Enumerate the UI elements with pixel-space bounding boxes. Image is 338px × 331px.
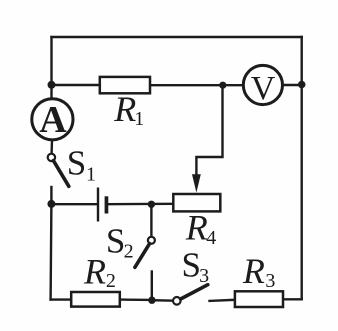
svg-text:S: S [106, 221, 125, 260]
node junction voltmeter-right [298, 81, 306, 89]
rheostat R4 [173, 194, 220, 249]
wire R1 to voltmeter [150, 84, 244, 86]
wire bottom left to R2 [51, 298, 72, 300]
svg-text:S: S [67, 143, 86, 182]
wire right vertical [301, 37, 303, 299]
svg-text:V: V [251, 70, 276, 107]
voltmeter V [243, 65, 282, 107]
resistor R2 [71, 251, 120, 306]
wire S1 lower contact stub [50, 187, 52, 204]
svg-text:S: S [182, 246, 201, 285]
svg-text:4: 4 [206, 227, 216, 249]
rheostat wiper arrow [192, 174, 201, 192]
svg-text:3: 3 [199, 265, 209, 287]
ammeter A [32, 99, 73, 141]
node junction battery-right [148, 201, 155, 208]
svg-text:2: 2 [124, 241, 134, 263]
node junction R1-right / wiper tap [219, 82, 226, 89]
wire S3 to R3 [210, 300, 235, 301]
wire R4 wiper feed [196, 85, 222, 176]
wire node A to R1 [52, 84, 100, 86]
node junction bottom [148, 297, 155, 304]
svg-text:R: R [83, 251, 106, 291]
switch S1 [48, 143, 96, 186]
svg-text:2: 2 [106, 270, 116, 292]
wire battery right to R4 [108, 203, 173, 206]
node junction top-left [48, 81, 56, 89]
svg-text:R: R [185, 208, 208, 248]
wire R2 to node B [120, 298, 152, 301]
svg-text:R: R [113, 89, 136, 129]
svg-text:1: 1 [134, 108, 144, 130]
node junction battery-left [47, 200, 55, 208]
wire S2 upper [150, 204, 152, 237]
svg-text:3: 3 [265, 270, 275, 292]
svg-text:1: 1 [86, 164, 96, 186]
resistor R3 [235, 251, 283, 307]
switch S2 [106, 221, 155, 267]
wire ammeter bottom stub [50, 140, 53, 154]
wire ammeter top stub [50, 85, 52, 99]
resistor R1 [100, 77, 150, 130]
battery cell [98, 188, 108, 222]
wire battery left [51, 203, 97, 205]
svg-text:R: R [242, 251, 265, 291]
wire voltmeter to right rail [282, 84, 302, 86]
wire node B to S3 [152, 299, 173, 302]
wire left upper vertical [50, 37, 52, 85]
switch S3 [173, 246, 209, 305]
svg-text:A: A [39, 99, 67, 141]
wire S2 lower contact stub [151, 272, 153, 301]
wire left lower vertical [49, 204, 52, 300]
wire top horizontal [52, 36, 302, 38]
wire R3 to right rail [283, 298, 302, 300]
